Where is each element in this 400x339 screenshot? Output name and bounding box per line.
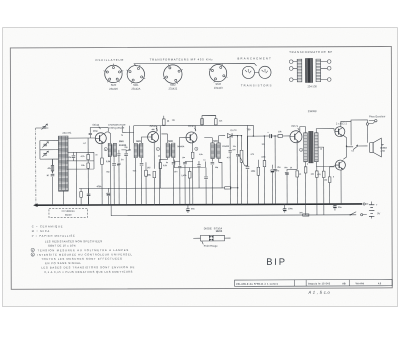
resistor R12 — [257, 166, 259, 168]
junction dots on buses — [63, 204, 64, 205]
transistor pinout circle 1 — [242, 66, 254, 78]
wire column x246 — [202, 116, 216, 126]
wire OC44 collector to top — [122, 126, 133, 133]
output coupling switch — [353, 146, 358, 150]
wire SM3 secondary bottom — [219, 159, 223, 163]
transistor OC45 (2nd IF) — [186, 132, 197, 143]
resistor R6 — [215, 119, 218, 125]
transformer BF terminal 1 (left) — [289, 60, 293, 64]
wire to speaker — [347, 146, 354, 148]
wire jack down to speaker — [366, 125, 368, 143]
wire collector up — [156, 126, 158, 132]
resistor R8 — [188, 171, 191, 178]
wires SM3 — [204, 138, 212, 162]
diode package drawing — [193, 237, 230, 239]
resistor R21 x160 — [159, 126, 161, 163]
wire from pot top to cap — [236, 136, 238, 154]
capacitor C3 — [121, 150, 126, 153]
capacitor C9 — [246, 125, 248, 165]
bypass electrolytic C12 — [287, 169, 297, 171]
transistor OC72 (lower) — [335, 160, 345, 170]
label Point Rouge — [202, 241, 204, 244]
transformer BF terminal 5 (right) — [327, 66, 331, 70]
capacitor C22 — [274, 169, 277, 171]
note V tension — [31, 248, 34, 251]
capacitor C8 — [211, 162, 215, 164]
resistor R7 — [153, 171, 156, 177]
coupling capacitor C10 (electrolytic) — [269, 134, 271, 138]
capacitor C6 — [140, 163, 144, 165]
transformer BF terminal 3 (left) — [289, 78, 293, 82]
title block box — [235, 279, 393, 286]
resistor R10 series — [278, 135, 283, 138]
AVC tap — [219, 163, 222, 188]
wire column x278 — [274, 136, 276, 169]
IF transformer SM3 — [211, 143, 214, 159]
electrolytic C11 — [271, 165, 273, 169]
wire SM2 top to feed — [161, 134, 167, 143]
wire base — [173, 137, 185, 161]
trimmer capacitor CV3 — [43, 153, 47, 155]
wire top left — [36, 127, 49, 129]
socket SM2 (2nd IF transformer) — [164, 65, 182, 83]
interstage transformer 234098 — [304, 133, 308, 162]
socket SM3 (3rd IF transformer) — [209, 64, 226, 81]
wire base bias — [87, 138, 89, 152]
wire pot top cap — [236, 135, 238, 137]
transistor OC71 (audio preamp) — [290, 131, 302, 143]
resistor R23 470k on AVC line — [222, 187, 224, 189]
wire column x270.8 top — [270, 124, 272, 126]
transistor OC45 (1st IF) — [148, 131, 159, 142]
transistor pinout circle 2 — [259, 66, 271, 78]
switch terminal connector — [361, 214, 363, 216]
wire column D — [229, 135, 231, 137]
wire between pinout circles — [255, 71, 259, 73]
battery 9V — [369, 205, 374, 217]
label 250ohm bus2 resistor — [303, 214, 309, 216]
wire column B — [159, 125, 161, 127]
resistor R9 — [191, 152, 194, 158]
transistor OC44 — [95, 133, 106, 144]
wires SM1 down — [136, 158, 142, 205]
collector up — [194, 126, 196, 132]
trimmer capacitor CV2 — [43, 144, 47, 146]
wire column C: SM2 bottom caps — [172, 162, 176, 164]
wire column A — [126, 126, 134, 158]
bus terminal connector — [363, 203, 365, 205]
capacitor C7 — [204, 177, 208, 179]
wire risers top feed — [202, 115, 216, 117]
wire emitter column — [101, 144, 103, 158]
second (negative) bus — [111, 204, 356, 216]
resistor R2 — [87, 163, 90, 168]
tuning gang link (dash-dot) — [35, 128, 37, 205]
resistor R15 — [322, 171, 325, 177]
transformer BF terminal 2 (left) — [289, 67, 293, 71]
wire coil taps — [55, 140, 58, 159]
volume potentiometer — [240, 150, 243, 162]
capacitor C2 5n — [112, 164, 116, 166]
resistor R14 — [304, 167, 307, 173]
electrolytic C15 — [333, 205, 336, 207]
ferrite antenna coil 234371 — [58, 136, 68, 191]
secondary bottom to OC72 base 2 — [316, 162, 334, 167]
voltage callout at OC45-1 emitter — [156, 147, 159, 150]
wire OC71 collector to primary — [300, 127, 306, 133]
emitters to bus — [341, 121, 346, 204]
wire — [40, 140, 55, 159]
diode OA79 detector — [219, 136, 225, 143]
IF transformer SM2 — [166, 143, 169, 157]
transformer BF winding detail — [297, 58, 320, 83]
capacitor C1 — [72, 156, 76, 158]
wire output emitter lower — [336, 168, 341, 170]
wire osc column — [76, 152, 78, 205]
wire speaker bottom — [370, 151, 372, 153]
capacitor C17 column — [118, 150, 120, 153]
oscillator feedback network wires — [67, 152, 94, 169]
resistor R1 — [87, 154, 90, 159]
wire coil to OC44 base — [68, 137, 95, 139]
wire OC45-2 emitter cap — [183, 162, 187, 164]
wire SM0 top to OC44 collector — [104, 132, 110, 144]
transistor OC72 (upper) — [335, 127, 345, 137]
capacitor C16 near OC44 top — [90, 128, 108, 133]
capacitor C21 detector — [229, 136, 231, 150]
oscillator coil SM0 — [108, 143, 111, 156]
wire feed down to SM1 — [133, 126, 135, 143]
capacitor C19 near SM2 — [179, 161, 181, 165]
emitter — [192, 142, 194, 152]
emitter resistor R22 lower OC72 — [330, 167, 335, 177]
socket SM0 (oscillator coil, bottom view) — [105, 65, 122, 82]
resistor R3 emitter — [101, 158, 104, 164]
secondary centre tap — [318, 147, 324, 171]
wire coil bottom to bus — [62, 191, 64, 205]
voltage callout at OC71 — [300, 148, 303, 151]
bias network wires — [174, 159, 205, 167]
main positive bus (thick) — [35, 204, 362, 205]
resistor R20 — [145, 170, 148, 176]
AVC line — [79, 187, 222, 190]
wire pot wiper to audio line — [245, 136, 255, 166]
transformer BF terminal 4 (right) — [327, 60, 331, 64]
supply feed line — [134, 124, 248, 126]
wire SM0 windings down — [111, 157, 115, 205]
capacitor C4 — [87, 194, 91, 196]
voltage callout at OC45-2 emitter — [195, 147, 198, 150]
electrolytic C5 — [107, 192, 110, 194]
transformer BF terminal 6 (right) — [327, 78, 331, 82]
IF transformer SM1 — [134, 143, 137, 157]
decoupling electrolytic C13 — [186, 208, 189, 210]
bias resistor R11 — [263, 136, 265, 160]
wire primary bottom — [305, 162, 307, 167]
resistor R17 — [201, 119, 204, 125]
on/off switch — [350, 212, 356, 215]
wire detector output down — [240, 136, 242, 151]
note A intensite — [31, 253, 34, 256]
capacitor C20 on AVC — [197, 165, 200, 167]
wire x199 avc tap — [198, 167, 200, 188]
wire feed extension — [247, 125, 253, 136]
resistor R5 — [163, 119, 166, 125]
emitter column — [153, 143, 155, 169]
collectors join — [343, 135, 346, 159]
resistor R19 at antenna — [51, 165, 54, 171]
voltage callout at OC44 emitter — [104, 148, 107, 151]
resistor R4 — [80, 192, 83, 198]
speaker HP 234563 — [370, 143, 373, 153]
wire column x129.8 — [126, 126, 130, 151]
resistor R16 — [316, 170, 318, 172]
capacitor C18 5n — [117, 163, 120, 164]
capacitor M 330p — [51, 159, 53, 205]
emitter resistor R13 — [296, 143, 298, 170]
wire upper emitter — [345, 121, 351, 145]
trimmer capacitor CV1 — [43, 126, 47, 128]
socket SM1 (1st IF transformer) — [127, 66, 144, 83]
dashed box CV variable capacitor — [49, 208, 88, 217]
wire base — [141, 137, 147, 143]
secondary top to OC72 base 1 — [316, 129, 334, 133]
decoupling electrolytic C14 — [283, 208, 286, 210]
